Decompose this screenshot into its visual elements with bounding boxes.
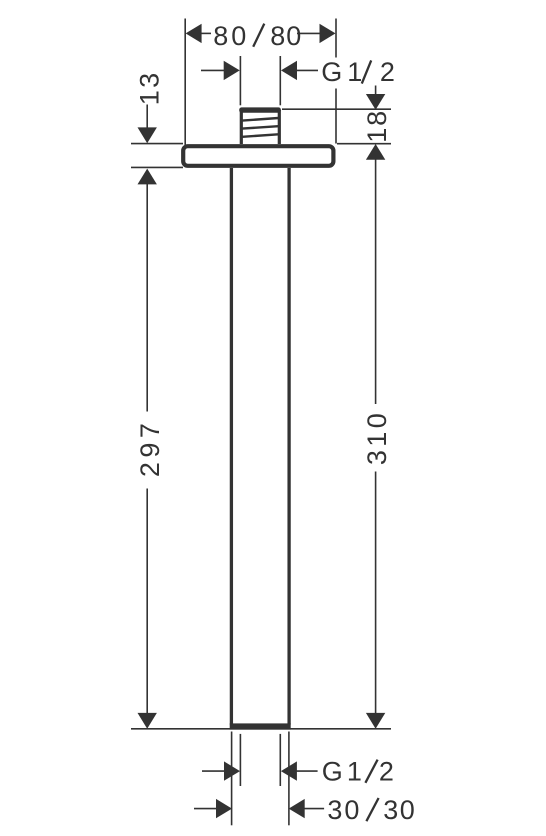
- svg-text:297: 297: [135, 419, 165, 478]
- dimension 297: [135, 169, 165, 729]
- dimension 310: [362, 144, 392, 729]
- svg-text:310: 310: [362, 410, 392, 465]
- svg-text:G12: G12: [322, 756, 394, 786]
- extension line left of 80/80: [184, 19, 186, 147]
- shower arm tube right wall: [287, 168, 290, 725]
- threaded connector left side: [240, 110, 243, 144]
- thread hatch line 2: [242, 126, 278, 128]
- thread hatch line 1: [242, 118, 278, 121]
- extension line bottom inner left (G1/2): [239, 734, 241, 786]
- shower arm tube left wall: [230, 168, 233, 725]
- threaded connector right side: [278, 110, 281, 144]
- extension line from thread top to the right: [282, 108, 391, 110]
- extension line from plate top to the left: [131, 143, 183, 145]
- dimension 13 (plate thickness): [135, 71, 165, 144]
- dimension G 1/2 bottom: [202, 756, 394, 786]
- dimension G 1/2 top: [201, 57, 395, 87]
- baseline reference line at tube bottom: [131, 728, 391, 730]
- extension line bottom outer right (30/30): [288, 732, 290, 826]
- svg-text:13: 13: [135, 71, 165, 106]
- thread hatch line 3: [242, 134, 278, 137]
- extension line from plate bottom to the left: [131, 166, 183, 168]
- ceiling plate: [183, 146, 333, 166]
- svg-text:G12: G12: [321, 57, 395, 87]
- extension line bottom outer left (30/30): [231, 732, 233, 826]
- dimension 18 (thread height): [362, 86, 392, 143]
- shower arm tube bottom cap: [230, 723, 291, 729]
- extension line right of 80/80 (gap at G 1/2 text): [335, 19, 337, 144]
- svg-text:18: 18: [362, 109, 392, 143]
- threaded connector G1/2 top bar: [239, 107, 281, 112]
- dimension 80/80: [186, 21, 336, 51]
- extension line left edge of thread: [239, 56, 241, 105]
- extension line right edge of thread: [279, 56, 281, 105]
- extension line bottom inner right (G1/2): [279, 734, 281, 786]
- dimension 30/30: [194, 795, 415, 825]
- extension line from plate top to the right: [337, 143, 391, 145]
